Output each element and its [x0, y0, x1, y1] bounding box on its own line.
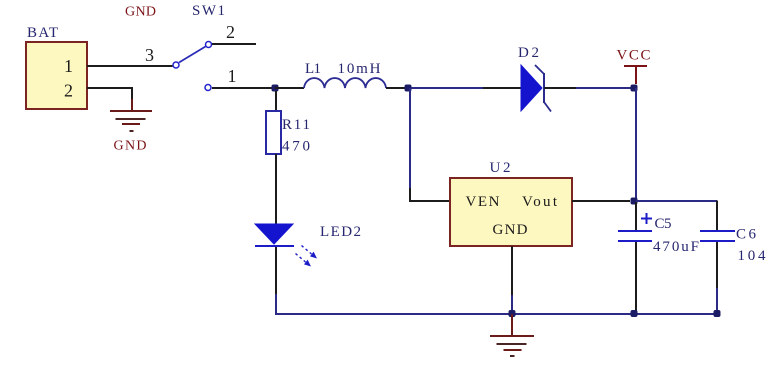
power symbol VCC — [624, 66, 647, 84]
node A junction at switch output — [272, 85, 279, 92]
svg-text:GND: GND — [493, 222, 528, 238]
svg-text:U2: U2 — [490, 160, 511, 176]
wire stub SW1 pin 2 — [212, 43, 256, 45]
label R11 — [282, 117, 310, 133]
net label VCC — [617, 48, 651, 64]
capacitor C5 plus sign — [641, 213, 652, 224]
svg-text:2: 2 — [64, 81, 73, 101]
switch SW1 lever — [179, 47, 206, 63]
value label 10mH — [338, 61, 381, 77]
label U2 — [490, 160, 511, 176]
U2 pin name VEN — [466, 194, 500, 210]
label BAT — [27, 25, 58, 41]
switch SW1 pin 3 terminal circle — [173, 62, 179, 68]
svg-text:R11: R11 — [282, 117, 310, 133]
value label 470 — [282, 139, 310, 155]
node B junction right of L1 — [405, 85, 412, 92]
wire SW1 pin 1 to node A — [212, 87, 275, 89]
label C5 — [655, 216, 672, 232]
diode D2 triangle — [521, 65, 542, 111]
wire node D to C5 — [635, 202, 637, 230]
svg-text:VEN: VEN — [466, 194, 500, 210]
battery BAT body — [26, 42, 87, 109]
switch SW1 pin 1 terminal circle — [205, 85, 211, 91]
svg-text:3: 3 — [145, 45, 154, 65]
net label GND below battery ground — [114, 139, 147, 154]
wire C5 bottom to rail — [635, 242, 637, 314]
svg-text:1: 1 — [228, 66, 237, 86]
wire R11 to LED2 anode — [275, 154, 277, 225]
node D junction at Vout net — [631, 198, 638, 205]
wire BAT pin 2 to ground — [87, 88, 132, 100]
svg-text:SW1: SW1 — [192, 3, 225, 19]
svg-text:470: 470 — [282, 139, 310, 155]
label LED2 — [320, 224, 361, 240]
svg-text:470uF: 470uF — [653, 239, 699, 255]
SW1 pin 2 number — [226, 22, 235, 42]
node C junction under VCC — [631, 85, 638, 92]
label SW1 — [192, 3, 225, 19]
BAT pin 2 number — [64, 81, 73, 101]
SW1 pin 3 number — [145, 45, 154, 65]
svg-text:10mH: 10mH — [338, 61, 381, 77]
wire C6 bottom to rail corner — [716, 242, 718, 315]
wire LED2 cathode to bottom rail — [275, 247, 277, 314]
value label 104 — [738, 248, 767, 264]
wire D2 cathode to node C — [544, 87, 637, 89]
svg-text:BAT: BAT — [27, 25, 58, 41]
svg-text:GND: GND — [125, 5, 156, 20]
ground symbol bottom — [490, 314, 534, 356]
svg-text:C5: C5 — [655, 216, 672, 232]
capacitor C5 plates — [618, 231, 652, 241]
label D2 — [518, 45, 539, 61]
switch SW1 pin 2 terminal circle — [206, 42, 212, 48]
svg-text:1: 1 — [64, 56, 73, 76]
wire U2 Vout pin to node D — [572, 200, 630, 202]
wire node A to L1 — [275, 87, 304, 89]
node E junction of GND pin on rail — [509, 310, 516, 317]
wire L1 to node B — [386, 87, 405, 89]
regulator U2 body — [450, 178, 572, 246]
ground symbol near BAT — [110, 99, 152, 131]
node G junction at rail right corner — [714, 310, 721, 317]
wire node D to C6 top — [636, 201, 717, 231]
wire node B to D2 anode — [411, 87, 521, 89]
wire node A down to R11 — [275, 91, 277, 111]
LED LED2 cathode bar — [255, 245, 294, 247]
LED LED2 triangle — [255, 224, 293, 244]
svg-text:D2: D2 — [518, 45, 539, 61]
resistor R11 body — [266, 111, 281, 154]
wire U2 GND pin to bottom rail — [511, 246, 513, 314]
wire U2 VEN riser to node B — [410, 88, 450, 201]
bottom ground rail wire — [275, 313, 718, 315]
U2 pin name Vout — [522, 194, 558, 210]
value label 470uF — [653, 239, 699, 255]
svg-text:GND: GND — [114, 139, 147, 154]
label L1 — [305, 61, 321, 77]
diode D2 cathode bar with zener tails — [535, 65, 551, 112]
capacitor C6 plates — [700, 231, 735, 241]
LED LED2 emission arrows — [296, 246, 318, 267]
svg-text:2: 2 — [226, 22, 235, 42]
node F junction of C5 on rail — [631, 310, 638, 317]
svg-text:C6: C6 — [736, 227, 757, 243]
svg-text:104: 104 — [738, 248, 767, 264]
SW1 pin 1 number — [228, 66, 237, 86]
wire node C down to node D — [635, 88, 637, 201]
inductor L1 coils — [304, 78, 386, 88]
svg-text:LED2: LED2 — [320, 224, 361, 240]
U2 pin name GND — [493, 222, 528, 238]
net label GND top — [125, 5, 156, 20]
BAT pin 1 number — [64, 56, 73, 76]
svg-text:Vout: Vout — [522, 194, 558, 210]
wire BAT pin 1 to SW1 pin 3 — [87, 65, 173, 67]
label C6 — [736, 227, 757, 243]
svg-text:L1: L1 — [305, 61, 321, 77]
svg-text:VCC: VCC — [617, 48, 651, 64]
